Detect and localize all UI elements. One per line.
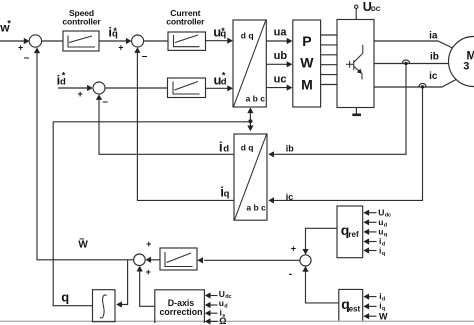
summing junction S4 (q error) bbox=[289, 244, 311, 280]
svg-text:*: * bbox=[7, 19, 11, 29]
svg-text:dc: dc bbox=[225, 294, 231, 300]
svg-text:P: P bbox=[302, 33, 311, 49]
wire iq feedback bbox=[134, 47, 234, 200]
svg-text:+: + bbox=[146, 267, 151, 277]
theta link between transform blocks bbox=[247, 107, 253, 131]
svg-text:ua: ua bbox=[274, 27, 288, 39]
wire q angle output bbox=[53, 289, 93, 305]
svg-text:+: + bbox=[291, 244, 296, 254]
wire iq* setpoint bbox=[99, 24, 132, 44]
svg-text:d: d bbox=[224, 303, 227, 309]
current controller block (q axis) bbox=[166, 8, 205, 50]
svg-text:dc: dc bbox=[385, 213, 391, 219]
svg-text:q: q bbox=[382, 251, 385, 257]
svg-text:u: u bbox=[378, 217, 383, 227]
node id* reference input bbox=[57, 70, 93, 91]
svg-text:d q: d q bbox=[241, 143, 254, 153]
PWM modulator block bbox=[293, 20, 321, 107]
svg-text:u: u bbox=[378, 227, 383, 237]
svg-text:d: d bbox=[382, 296, 385, 302]
wire q_ref to S4 bbox=[302, 228, 337, 254]
inverter block bbox=[337, 20, 374, 108]
svg-text:d q: d q bbox=[241, 31, 254, 41]
svg-text:U: U bbox=[378, 208, 384, 218]
svg-text:–: – bbox=[24, 53, 30, 64]
wire S4 to estimator controller bbox=[197, 257, 300, 263]
svg-text:*: * bbox=[221, 26, 225, 36]
svg-text:+: + bbox=[78, 89, 83, 99]
svg-text:controller: controller bbox=[62, 17, 101, 27]
wire S5 to integrator bbox=[116, 260, 127, 308]
summing junction S3 (d current error) bbox=[78, 82, 109, 107]
svg-text:ub: ub bbox=[274, 50, 288, 62]
block q_ref bbox=[337, 206, 363, 258]
svg-text:DC: DC bbox=[371, 6, 381, 13]
wire ud* to dq/abc bbox=[206, 70, 234, 91]
svg-text:M: M bbox=[301, 76, 313, 92]
svg-text:d: d bbox=[382, 242, 385, 248]
current controller block (d axis) bbox=[168, 78, 206, 98]
estimator controller block bbox=[160, 248, 197, 270]
svg-text:–: – bbox=[142, 51, 148, 62]
svg-text:+: + bbox=[118, 42, 123, 52]
summing junction S5 (speed estimate) bbox=[134, 239, 152, 277]
svg-text:correction: correction bbox=[159, 307, 202, 317]
wire theta distribution bbox=[53, 122, 250, 306]
svg-text:W: W bbox=[300, 55, 314, 71]
svg-text:ia: ia bbox=[429, 31, 438, 42]
wire q_est to S4 bbox=[302, 266, 338, 303]
svg-text:controller: controller bbox=[166, 17, 205, 27]
svg-text:3: 3 bbox=[463, 61, 469, 73]
svg-text:*: * bbox=[113, 26, 117, 36]
svg-text:-: - bbox=[289, 269, 292, 280]
block q_est bbox=[339, 289, 363, 322]
transistor Q1 inside inverter bbox=[346, 45, 363, 80]
current sensor on ic bbox=[419, 83, 426, 88]
node w* reference input bbox=[0, 19, 29, 45]
abc to dq transform block U2 bbox=[234, 134, 267, 220]
svg-text:Ω: Ω bbox=[219, 316, 226, 325]
wire ib to motor bbox=[374, 51, 449, 63]
svg-text:q: q bbox=[61, 289, 69, 304]
svg-text:W: W bbox=[78, 240, 88, 251]
wire ub bbox=[266, 50, 292, 68]
svg-text:est: est bbox=[349, 304, 361, 313]
wire id feedback bbox=[96, 94, 235, 154]
current sensor on ib bbox=[402, 60, 409, 65]
summing junction S1 (speed error) bbox=[18, 35, 42, 64]
svg-text:ic: ic bbox=[286, 192, 294, 202]
D-axis correction input stubs bbox=[205, 289, 232, 325]
speed controller block bbox=[62, 8, 101, 51]
motor M 3~ bbox=[449, 37, 474, 87]
wire ib feedback to abc/dq bbox=[268, 65, 406, 157]
wire S2 to current controller bbox=[144, 40, 168, 42]
wire ic to motor bbox=[374, 71, 456, 87]
svg-text:+: + bbox=[18, 42, 23, 52]
wire S3 to d-axis current controller bbox=[105, 87, 168, 89]
svg-text:ib: ib bbox=[286, 144, 295, 154]
svg-text:d: d bbox=[223, 143, 229, 154]
svg-text:d: d bbox=[384, 223, 387, 229]
wire uc bbox=[266, 73, 292, 90]
wire S1 to speed controller bbox=[42, 40, 63, 42]
wire uq* to dq/abc bbox=[206, 24, 234, 43]
dq to abc transform block U1 bbox=[233, 20, 266, 107]
D-axis correction block bbox=[155, 290, 205, 323]
svg-text:–: – bbox=[102, 96, 108, 107]
integrator block bbox=[93, 290, 116, 322]
summing junction S2 (q current error) bbox=[118, 35, 148, 62]
node UDC supply bbox=[355, 0, 381, 20]
wires PWM gate signals (6) bbox=[321, 35, 337, 85]
wire estimator controller to S5 bbox=[145, 257, 160, 263]
svg-text:W: W bbox=[379, 312, 388, 322]
svg-text:q: q bbox=[384, 232, 387, 238]
wire ua bbox=[266, 27, 292, 45]
wire D-axis correction to S5 bbox=[137, 266, 155, 307]
svg-text:+: + bbox=[146, 239, 151, 249]
crop edge line bbox=[0, 320, 474, 322]
wire ia to motor bbox=[374, 31, 453, 48]
svg-text:a b c: a b c bbox=[246, 203, 266, 213]
svg-text:uc: uc bbox=[274, 73, 287, 85]
wire ic feedback to abc/dq bbox=[268, 89, 422, 204]
svg-text:a b c: a b c bbox=[246, 93, 266, 103]
svg-text:q: q bbox=[224, 189, 230, 200]
svg-text:ib: ib bbox=[430, 51, 439, 62]
wire estimated speed W feedback bbox=[34, 47, 134, 259]
ground below inverter bbox=[352, 108, 361, 117]
svg-text:*: * bbox=[222, 70, 226, 80]
svg-text:i: i bbox=[219, 139, 223, 154]
svg-text:u: u bbox=[219, 298, 224, 308]
q_ref input stubs bbox=[363, 208, 391, 258]
svg-text:ref: ref bbox=[348, 230, 359, 239]
svg-text:*: * bbox=[62, 70, 66, 80]
svg-text:ic: ic bbox=[429, 71, 438, 82]
q_est input stubs bbox=[363, 291, 388, 322]
